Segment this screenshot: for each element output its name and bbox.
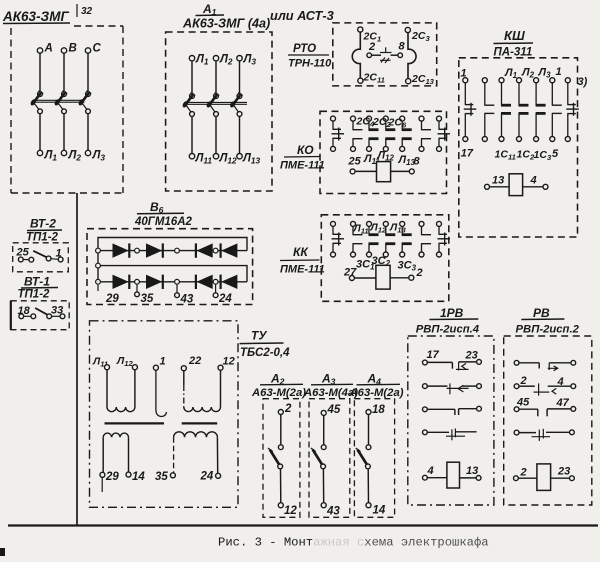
- КК contact Л13-3С3: [400, 221, 412, 257]
- svg-text:35: 35: [141, 293, 154, 305]
- РВ contact nc: [514, 429, 574, 441]
- В6 left column wire: [97, 251, 99, 282]
- svg-text:1: 1: [160, 356, 166, 368]
- КО contact 2С4-Л11: [367, 116, 379, 151]
- diode V8 (bottom row, reversed): [221, 275, 237, 289]
- mechanical link of breaker poles: [33, 100, 85, 102]
- КШ contact 31: [565, 78, 579, 142]
- enclosure box of КШ: [459, 58, 578, 237]
- toggle switch ВТ-2 (ТП1-2) label: [26, 217, 62, 244]
- ТУ secondary terminal 35 (dashed lead): [155, 437, 175, 483]
- В6 top bus wire: [98, 238, 247, 251]
- heater element 2С3-2С13: [405, 27, 416, 83]
- КО contact aux nc right: [437, 116, 451, 151]
- КК contact aux nc left: [331, 221, 345, 257]
- КК contact aux no: [351, 221, 363, 257]
- КК contact Л12-3С2: [383, 221, 395, 257]
- ТУ secondary winding 29-14: [103, 433, 128, 437]
- toggle switch ВТ-1 (ТП1-2) label: [18, 275, 59, 301]
- svg-text:АК63-ЗМГ (4а): АК63-ЗМГ (4а): [182, 17, 270, 31]
- wire from breaker А to bottom bus: [76, 193, 78, 526]
- svg-text:29: 29: [105, 471, 119, 483]
- svg-text:КШ: КШ: [504, 28, 525, 43]
- КК contact aux nc right: [437, 221, 451, 257]
- page edge mark: [0, 548, 5, 556]
- breaker А4 (А63-М(2а)) label: [349, 372, 404, 400]
- enclosure box of 1РВ: [408, 336, 494, 505]
- breaker А3 pole 45-43: [311, 404, 341, 518]
- enclosure box of А4: [354, 399, 394, 518]
- 1РВ contact nc: [423, 429, 477, 441]
- svg-text:2: 2: [416, 267, 423, 279]
- svg-text:25: 25: [16, 247, 30, 259]
- contactor КО (ПМЕ-111) label: [280, 143, 325, 172]
- КО coil 25-8: [350, 162, 414, 182]
- КШ terminal labels top: [461, 66, 588, 88]
- svg-text:ПА-311: ПА-311: [494, 47, 533, 59]
- КО contact aux no right: [419, 116, 431, 151]
- svg-text:ВТ-2: ВТ-2: [30, 217, 56, 231]
- thermal relay РТО (ТРН-110) label: [288, 43, 332, 70]
- diode V1 (top row): [113, 243, 129, 257]
- enclosure box of ТУ: [90, 321, 239, 508]
- enclosure box of А3: [309, 399, 350, 518]
- svg-text:1РВ: 1РВ: [440, 306, 464, 320]
- breaker pole С-Л3: [78, 43, 106, 163]
- enclosure box of breaker А1: [166, 32, 272, 191]
- ВТ-1 switch 18-33: [18, 305, 65, 319]
- svg-text:2: 2: [520, 467, 527, 479]
- РВ contact with arrow (delay on opening): [514, 360, 576, 370]
- svg-text:АК63-ЗМГ: АК63-ЗМГ: [2, 9, 69, 24]
- ТУ primary terminal 12: [218, 356, 235, 408]
- КШ coil 13-4: [485, 174, 549, 196]
- svg-text:ПМЕ-111: ПМЕ-111: [280, 160, 325, 172]
- mechanical link of breaker А1 poles: [185, 102, 248, 104]
- diode V7 (bottom row, reversed): [197, 275, 213, 289]
- circuit breaker А1 (АК63-3МГ (4а)) label: [182, 2, 270, 31]
- ТУ primary terminal Л12: [116, 355, 137, 407]
- В6 terminal 43: [175, 284, 194, 305]
- В6 middle rail and right drop: [98, 266, 247, 282]
- КК contact Л11-3С1: [367, 221, 379, 257]
- svg-text:1: 1: [556, 66, 562, 78]
- transformer ТУ (ТБС2-0,4) label: [240, 329, 291, 360]
- КК contact aux no right: [419, 221, 431, 257]
- КК terminal labels top: [353, 222, 407, 236]
- svg-text:45: 45: [327, 404, 341, 416]
- svg-text:8: 8: [414, 156, 421, 168]
- enclosure box of А2: [263, 399, 300, 518]
- svg-text:РВП-2исп.4: РВП-2исп.4: [416, 324, 480, 336]
- svg-text:12: 12: [223, 356, 235, 368]
- enclosure box of ВТ-1: [11, 301, 69, 330]
- svg-text:35: 35: [155, 471, 168, 483]
- В6 terminal 35: [135, 284, 154, 305]
- svg-text:17: 17: [461, 148, 474, 160]
- svg-text:5: 5: [552, 148, 559, 160]
- svg-text:24: 24: [218, 293, 232, 305]
- ТУ primary winding 22-12: [184, 407, 221, 412]
- svg-text:24: 24: [200, 471, 214, 483]
- svg-text:23: 23: [465, 350, 478, 362]
- ТУ secondary terminal 24: [200, 437, 221, 482]
- diode V3 (top row, reversed): [197, 243, 213, 257]
- 1РВ contact 17-23 (delay on closing): [423, 349, 482, 371]
- enclosure box of КК: [321, 215, 449, 301]
- РТО contact 2-8: [367, 41, 406, 64]
- В6 bottom row wire: [98, 281, 247, 283]
- КШ contact Л2-1С2: [517, 78, 529, 142]
- breaker А2 (А63-М(2а)) label: [251, 372, 306, 400]
- svg-text:23: 23: [557, 466, 570, 478]
- svg-text:14: 14: [132, 471, 145, 483]
- КО terminal labels bottom: [348, 150, 421, 168]
- svg-text:А63-М(2а): А63-М(2а): [251, 387, 306, 399]
- svg-text:40ГМ16А2: 40ГМ16А2: [134, 216, 193, 228]
- ТУ secondary terminal 29: [100, 437, 119, 492]
- svg-text:РВП-2исп.2: РВП-2исп.2: [516, 324, 580, 336]
- КО contact aux no: [351, 116, 363, 151]
- 1РВ contact nc with delay: [423, 383, 482, 394]
- В6 node circles: [96, 248, 218, 284]
- breaker А1 pole Л2-Л12: [206, 54, 238, 166]
- КШ terminal labels bottom: [461, 148, 559, 163]
- ТУ core right: [182, 422, 218, 424]
- КО contact 2С2-Л12: [383, 116, 395, 151]
- enclosure box of В6: [87, 229, 253, 305]
- svg-text:или АСТ-3: или АСТ-3: [270, 8, 334, 23]
- svg-text:А63-М(2а): А63-М(2а): [349, 387, 404, 399]
- svg-text:18: 18: [372, 404, 385, 416]
- КО contact aux nc left: [331, 116, 345, 151]
- ТУ primary terminal 22: [181, 355, 201, 407]
- time relay 1РВ (РВП-2исп.4) label: [416, 306, 480, 336]
- circuit breaker А (АК63-3МГ) block label: [2, 9, 70, 24]
- КО terminal labels top: [356, 116, 407, 130]
- svg-text:ТП1-2: ТП1-2: [26, 232, 59, 244]
- svg-text:13: 13: [466, 465, 478, 477]
- ТУ primary terminal Л11: [92, 356, 110, 408]
- svg-text:43: 43: [180, 294, 194, 306]
- ВТ-2 switch 25-1: [16, 247, 63, 263]
- svg-text:РВ: РВ: [533, 306, 550, 320]
- КШ contact aux: [482, 78, 494, 142]
- КШ contact 1-17: [463, 78, 477, 142]
- svg-text:ТРН-110: ТРН-110: [288, 58, 332, 70]
- enclosure box of ВТ-2: [13, 243, 69, 272]
- ТУ terminal 1 with hook: [153, 356, 166, 417]
- breaker А1 pole Л1-Л11: [182, 54, 213, 166]
- contactor КШ (ПА-311) label: [494, 28, 534, 59]
- ТУ secondary terminal 14: [126, 437, 145, 483]
- svg-text:ТБС2-0,4: ТБС2-0,4: [240, 347, 290, 359]
- КШ contact 1-5: [550, 78, 562, 142]
- diode V4 (top row, reversed): [221, 243, 237, 257]
- svg-text:25: 25: [348, 156, 362, 168]
- caption Рис. 3: [218, 536, 489, 550]
- svg-text:22: 22: [188, 355, 201, 367]
- КК coil 27-2: [349, 265, 413, 289]
- svg-text:47: 47: [556, 397, 570, 409]
- svg-text:ВТ-1: ВТ-1: [24, 275, 50, 289]
- 1РВ contact no: [423, 406, 482, 415]
- breaker pole А-Л1: [30, 43, 58, 163]
- breaker А2 pole 2-12: [268, 403, 297, 517]
- КШ contact Л3-1С3: [534, 78, 546, 142]
- svg-text:С: С: [93, 43, 102, 55]
- enclosure box of РТО: [333, 23, 437, 86]
- В6 terminal 24: [213, 284, 232, 305]
- КШ contact Л1-1С11: [499, 78, 511, 142]
- svg-text:29: 29: [105, 293, 119, 305]
- svg-text:2: 2: [368, 41, 375, 53]
- svg-text:12: 12: [284, 505, 297, 517]
- svg-text:17: 17: [427, 349, 440, 361]
- enclosure box of РВ: [504, 336, 592, 505]
- svg-text:2: 2: [520, 375, 527, 387]
- svg-text:4: 4: [530, 175, 537, 187]
- time relay РВ (РВП-2исп.2) label: [516, 306, 580, 336]
- svg-text:Рис. 3 - Монтажная схема элект: Рис. 3 - Монтажная схема электрошкафа: [218, 536, 489, 550]
- enclosure box of breaker АК63-3МГ: [11, 26, 123, 193]
- svg-text:ТУ: ТУ: [251, 329, 267, 343]
- diode V2 (top row): [146, 243, 162, 257]
- РВ contact 2-4 (nc with delay): [514, 375, 576, 396]
- В6 terminal 29: [98, 284, 119, 305]
- contactor КК (ПМЕ-111) label: [280, 245, 325, 276]
- svg-text:ТП1-2: ТП1-2: [18, 289, 51, 301]
- heater element 2С1-2С11: [352, 27, 363, 83]
- bottom bus wire: [8, 524, 598, 526]
- svg-text:43: 43: [326, 506, 340, 518]
- svg-text:4: 4: [427, 465, 434, 477]
- ТУ core left: [105, 422, 165, 424]
- РВ contact 45-47 (no): [514, 397, 576, 417]
- svg-text:8: 8: [399, 41, 406, 53]
- svg-text:А: А: [44, 43, 53, 55]
- breaker pole В-Л2: [54, 43, 82, 163]
- diode V6 (bottom row): [146, 275, 162, 289]
- 1РВ coil 4-13: [423, 462, 482, 488]
- svg-text:КО: КО: [297, 143, 314, 157]
- svg-text:1: 1: [461, 68, 467, 80]
- breaker А4 pole 18-14: [356, 404, 386, 517]
- svg-text:В: В: [69, 43, 77, 55]
- svg-text:КК: КК: [293, 245, 309, 259]
- ТУ secondary winding 35-24: [174, 432, 218, 437]
- ТУ primary winding Л11-Л12: [107, 407, 135, 412]
- sheet mark 32: [77, 4, 93, 17]
- В6 top row wire: [98, 250, 247, 252]
- svg-text:13: 13: [492, 175, 504, 187]
- breaker А1 pole Л3-Л13: [229, 54, 261, 166]
- КК terminal labels bottom: [343, 255, 423, 279]
- svg-text:3): 3): [578, 76, 588, 88]
- svg-text:32: 32: [81, 6, 93, 17]
- enclosure box of КО: [320, 111, 447, 193]
- breaker А3 (А63-М(4а)) label: [303, 372, 358, 400]
- svg-text:ПМЕ-111: ПМЕ-111: [280, 264, 325, 276]
- svg-text:2: 2: [284, 403, 292, 415]
- svg-text:РТО: РТО: [293, 43, 316, 55]
- diode V5 (bottom row): [113, 275, 129, 289]
- РВ coil 2-23: [514, 464, 575, 491]
- rectifier В6 (40ГМ16А2) label: [134, 200, 193, 228]
- svg-text:14: 14: [373, 505, 386, 517]
- КО contact 2С6-Л13: [400, 116, 412, 151]
